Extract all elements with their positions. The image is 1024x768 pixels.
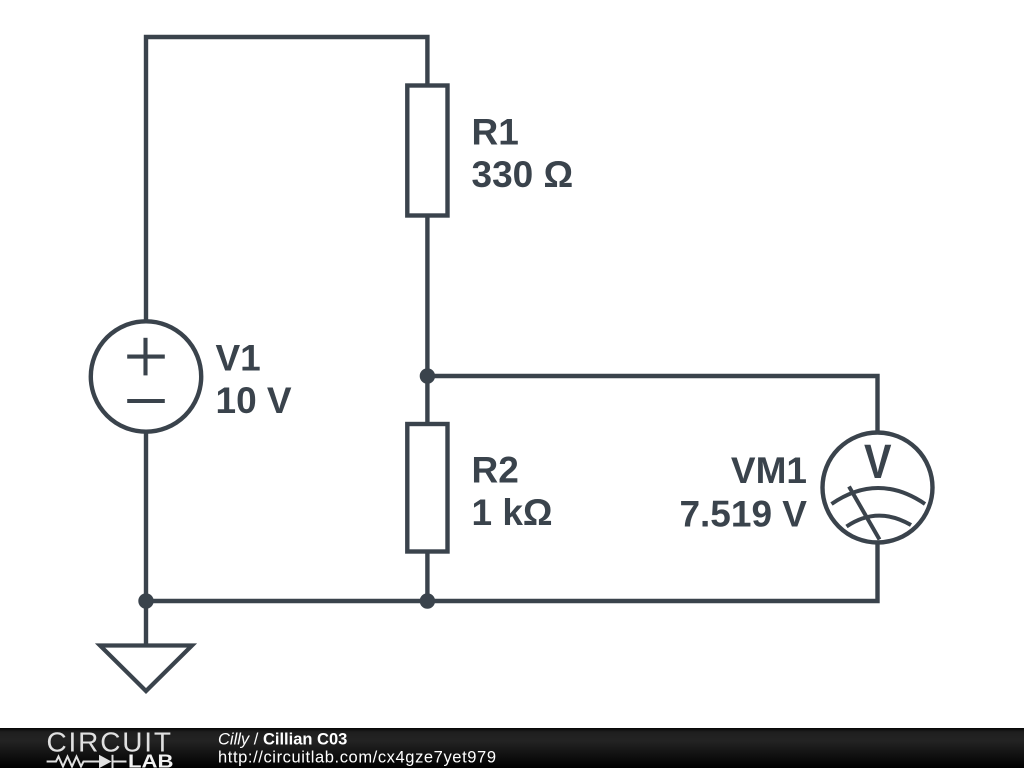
voltage source V1 bbox=[91, 321, 201, 431]
CircuitLab logo resistor-diode glyph bbox=[47, 755, 127, 768]
wire V1 bottom to bottom rail bbox=[144, 432, 148, 602]
wire V1 top to R1 top bbox=[146, 37, 427, 322]
ground bbox=[100, 646, 192, 692]
label VM1 value bbox=[679, 450, 807, 534]
label R1 value bbox=[472, 112, 574, 196]
label R2 value bbox=[472, 450, 553, 534]
svg-text:http://circuitlab.com/cx4gze7y: http://circuitlab.com/cx4gze7yet979 bbox=[218, 748, 496, 766]
label V1 value bbox=[216, 338, 292, 422]
wire node A to VM1 top bbox=[427, 376, 877, 431]
footer bar bbox=[0, 728, 1024, 768]
resistor R1 bbox=[407, 86, 447, 216]
wire R2 bottom to bottom rail bbox=[425, 552, 429, 602]
bottom rail junction dot left bbox=[138, 593, 153, 608]
resistor R2 bbox=[407, 424, 447, 552]
svg-text:LAB: LAB bbox=[128, 751, 174, 768]
node A junction dot bbox=[420, 368, 435, 383]
voltmeter VM1 bbox=[823, 433, 933, 543]
wire bottom rail to VM1 bottom bbox=[146, 545, 878, 602]
svg-text:Cilly / Cillian C03: Cilly / Cillian C03 bbox=[218, 731, 347, 749]
bottom rail junction dot middle bbox=[420, 593, 435, 608]
wire node A to R2 top bbox=[425, 376, 429, 424]
wire R1 bottom to node A bbox=[425, 216, 429, 377]
svg-text:7.519 V: 7.519 V bbox=[679, 493, 807, 534]
CircuitLab logo wordmark bbox=[47, 727, 174, 768]
svg-text:R1: R1 bbox=[472, 112, 519, 153]
wire ground stub bbox=[144, 601, 148, 646]
svg-text:1 kΩ: 1 kΩ bbox=[472, 492, 553, 533]
svg-text:R2: R2 bbox=[472, 450, 519, 491]
svg-text:330 Ω: 330 Ω bbox=[472, 154, 574, 195]
svg-text:VM1: VM1 bbox=[731, 450, 807, 491]
svg-text:10 V: 10 V bbox=[216, 380, 292, 421]
svg-text:V1: V1 bbox=[216, 338, 261, 379]
svg-text:V: V bbox=[864, 436, 892, 489]
